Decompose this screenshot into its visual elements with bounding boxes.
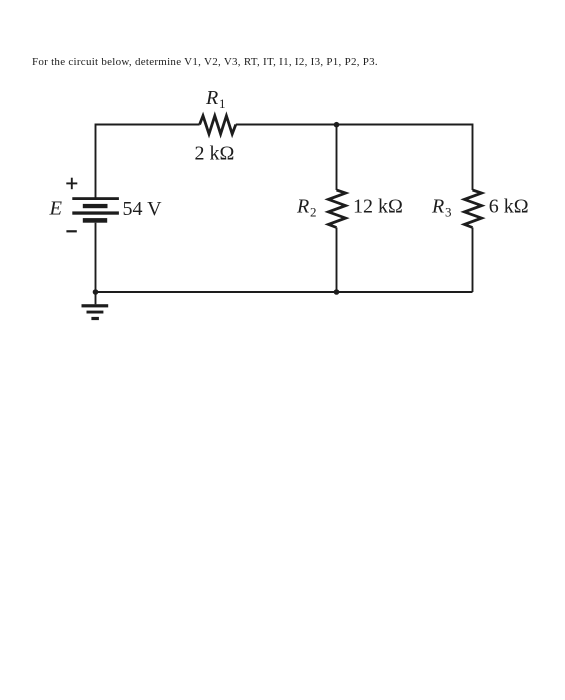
ground: [82, 304, 109, 320]
wire top-left segment: [96, 125, 200, 199]
label R2: [296, 195, 317, 219]
svg-text:12 kΩ: 12 kΩ: [353, 196, 403, 218]
node C (junction dot bottom-left at ground): [93, 289, 99, 295]
svg-text:For the circuit below, determi: For the circuit below, determine V1, V2,…: [32, 56, 378, 68]
svg-text:6 kΩ: 6 kΩ: [489, 196, 529, 218]
minus sign: [66, 230, 76, 232]
plus sign: [66, 178, 77, 190]
label R3: [431, 195, 452, 219]
svg-text:R: R: [431, 195, 444, 217]
wire R2 branch bottom: [336, 228, 338, 293]
svg-text:2 kΩ: 2 kΩ: [195, 143, 235, 165]
label R1: [205, 87, 226, 111]
wire right branch bottom: [472, 228, 474, 293]
svg-text:1: 1: [219, 96, 226, 111]
svg-text:2: 2: [310, 204, 317, 219]
svg-text:R: R: [205, 87, 218, 109]
svg-text:E: E: [49, 197, 63, 219]
resistor R1: [200, 116, 236, 134]
wire top-right segment: [236, 125, 473, 191]
svg-text:3: 3: [445, 204, 452, 219]
svg-text:R: R: [296, 195, 309, 217]
resistor R2: [328, 190, 345, 228]
battery E (plates): [72, 197, 119, 223]
wire battery to bottom node: [95, 223, 97, 292]
resistor R3: [464, 190, 481, 228]
node B (junction dot bottom of R2 branch): [334, 289, 340, 295]
wire ground stem: [95, 292, 97, 304]
wire R2 branch top: [336, 125, 338, 191]
node A (junction dot top of R2 branch): [334, 122, 340, 128]
svg-text:54 V: 54 V: [123, 198, 163, 220]
wire bottom segment: [96, 291, 473, 293]
